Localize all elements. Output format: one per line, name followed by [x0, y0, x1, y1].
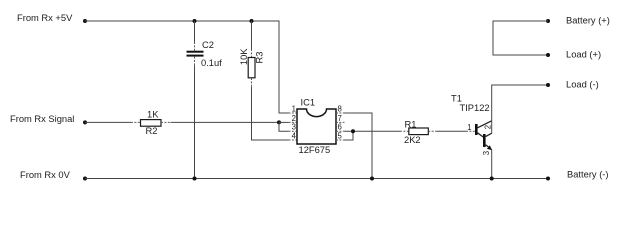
svg-text:5: 5 — [338, 132, 343, 141]
svg-text:2: 2 — [292, 114, 296, 123]
wire R3 bottom to IC pin4 — [252, 87, 289, 140]
resistor R1 — [404, 119, 428, 145]
wire 0V rail — [85, 178, 548, 180]
node From Rx +5V terminal — [83, 19, 87, 23]
node junction +5V / R3 — [250, 19, 254, 23]
svg-text:C2: C2 — [202, 40, 214, 50]
node junction +5V / C2 — [193, 19, 197, 23]
svg-text:1K: 1K — [147, 109, 159, 119]
transistor Q1/T1 TIP122 darlington — [451, 93, 492, 155]
wire +5V rail to IC pin1 — [85, 21, 289, 113]
node From Rx 0V terminal — [83, 177, 87, 181]
wire R2 left lead (dashed) — [131, 121, 141, 123]
svg-text:IC1: IC1 — [301, 98, 316, 108]
svg-text:1: 1 — [467, 123, 471, 132]
svg-text:Load (+): Load (+) — [566, 50, 601, 60]
wire signal to R2 — [85, 121, 131, 123]
wire R2 right lead (dashed) — [161, 121, 171, 123]
wire Battery (+) to Load (+) — [493, 21, 548, 55]
wire R1 to T1 base — [437, 130, 466, 132]
wire R1 left lead (dashed) — [400, 130, 409, 132]
wire IC pin6 lead (dashed) — [336, 130, 345, 132]
svg-text:3: 3 — [482, 151, 491, 155]
svg-text:Battery (-): Battery (-) — [567, 170, 609, 180]
svg-text:T1: T1 — [451, 93, 462, 103]
svg-text:Load (-): Load (-) — [566, 80, 599, 90]
wire R1 right lead (dashed) — [428, 130, 437, 132]
T1 second base bar — [483, 134, 486, 147]
node junction 0V / emitter — [490, 177, 494, 181]
wire IC pin4 lead (dashed) — [289, 139, 298, 141]
svg-text:2K2: 2K2 — [404, 135, 421, 145]
svg-text:3: 3 — [292, 123, 296, 132]
svg-text:4: 4 — [292, 132, 297, 141]
node junction pin5/pin6 — [351, 129, 355, 133]
svg-text:2: 2 — [483, 125, 492, 129]
wire T1 emitter to 0V rail — [491, 150, 493, 179]
node junction 0V / pin8 — [370, 177, 374, 181]
T1 second collector diagonal — [486, 133, 492, 136]
wire R2 to IC pins 2,3 — [171, 121, 280, 123]
svg-text:1: 1 — [292, 105, 296, 114]
wire junction down to IC pin3 — [279, 122, 289, 131]
svg-text:R1: R1 — [405, 119, 417, 129]
svg-text:From Rx +5V: From Rx +5V — [17, 13, 73, 23]
svg-text:R3: R3 — [255, 52, 265, 64]
resistor R2 — [141, 109, 162, 136]
wire pin5 up to pin6 net — [345, 131, 354, 140]
node Load (+) terminal — [546, 53, 550, 57]
svg-text:12F675: 12F675 — [299, 145, 331, 155]
svg-text:From Rx 0V: From Rx 0V — [20, 170, 71, 180]
node Load (-) terminal — [546, 83, 550, 87]
T1 internal emitter to second base — [478, 133, 484, 137]
svg-text:From Rx Signal: From Rx Signal — [10, 114, 74, 124]
wire IC pin1 lead (dashed) — [289, 112, 298, 114]
svg-text:TIP122: TIP122 — [460, 103, 490, 113]
svg-text:7: 7 — [338, 114, 342, 123]
wire T1 base lead (dashed) — [466, 130, 475, 132]
node From Rx Signal terminal — [83, 120, 87, 124]
node junction 0V / C2 — [193, 177, 197, 181]
wire IC pin7 stub (dashed) — [336, 121, 345, 123]
node junction signal / pin2 / pin3 — [277, 120, 281, 124]
wire IC pin2 lead — [279, 121, 289, 123]
wire IC pin8 lead (dashed) — [336, 112, 345, 114]
T1 emitter diagonal with arrow — [486, 145, 492, 150]
wire collector vertical segment — [491, 121, 493, 134]
svg-text:8: 8 — [338, 105, 342, 114]
wire T1 collector to Load(-) — [492, 85, 548, 121]
svg-text:10K: 10K — [239, 48, 249, 65]
node Battery (+) terminal — [546, 19, 550, 23]
T1 base bar — [475, 124, 478, 135]
svg-text:6: 6 — [338, 123, 342, 132]
T1 collector diagonal — [478, 121, 492, 128]
svg-text:R2: R2 — [146, 126, 158, 136]
wire pin6 to R1 — [345, 130, 401, 132]
svg-text:Battery (+): Battery (+) — [566, 16, 610, 26]
resistor R3 — [239, 21, 265, 87]
node Battery (-) terminal — [546, 177, 550, 181]
wire pin8 to 0V rail — [345, 113, 373, 179]
capacitor C2 — [187, 21, 223, 179]
wire IC pin5 lead (dashed) — [336, 139, 345, 141]
svg-text:0.1uf: 0.1uf — [201, 58, 222, 68]
op-amp/IC U1: PIC 12F675 body — [292, 98, 343, 156]
